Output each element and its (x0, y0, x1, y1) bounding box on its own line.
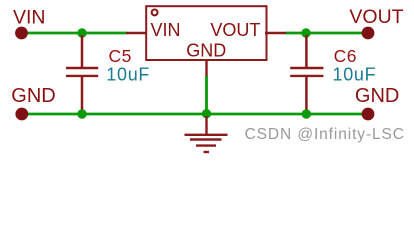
junction at C5 top / node VIN (77, 28, 86, 37)
capacitor C5 (66, 35, 150, 112)
wire GND rail (24, 113, 362, 116)
capacitor C6 (290, 35, 376, 112)
svg-text:10uF: 10uF (333, 65, 377, 85)
svg-text:CSDN @Infinity-LSC: CSDN @Infinity-LSC (245, 126, 405, 143)
ground symbol (185, 116, 228, 152)
port GND left (11, 85, 55, 120)
pin VIN (left stub of U1) (126, 32, 147, 34)
svg-text:VIN: VIN (151, 20, 181, 40)
svg-text:10uF: 10uF (106, 65, 150, 85)
svg-text:VOUT: VOUT (349, 6, 403, 28)
svg-text:GND: GND (355, 85, 399, 107)
regulator U1 body (146, 6, 266, 60)
svg-text:VOUT: VOUT (210, 20, 260, 40)
junction at C6 bottom (302, 109, 311, 118)
svg-text:C6: C6 (334, 46, 357, 66)
svg-text:VIN: VIN (13, 6, 46, 28)
port GND right (355, 85, 399, 120)
svg-text:C5: C5 (109, 46, 132, 66)
junction at ground symbol (202, 109, 211, 118)
pin VOUT (right stub of U1) (265, 32, 287, 34)
wire VOUT net (286, 32, 362, 35)
port VOUT (349, 6, 403, 40)
pin-1 marker circle (152, 10, 158, 16)
wire VIN net: port to left pin (22, 32, 127, 35)
pin GND (bottom stub of U1) (205, 59, 207, 77)
svg-text:GND: GND (11, 85, 55, 107)
junction at C5 bottom (77, 109, 86, 118)
svg-text:GND: GND (186, 40, 226, 60)
junction at C6 top / node VOUT (301, 28, 310, 37)
port VIN (13, 6, 46, 39)
wire GND pin to ground rail (205, 76, 208, 114)
